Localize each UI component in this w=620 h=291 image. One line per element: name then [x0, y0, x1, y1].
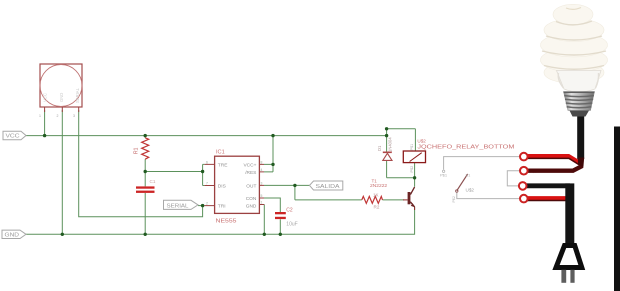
- junction VCC/R1: [144, 134, 147, 137]
- 555 pin numbers: [206, 160, 263, 205]
- wire VCC rail: [26, 135, 387, 137]
- svg-text:TRE: TRE: [218, 163, 228, 169]
- module pin labels inside: [43, 87, 81, 103]
- junction GND/C1: [144, 233, 147, 236]
- svg-text:T1: T1: [372, 179, 378, 184]
- svg-text:1K: 1K: [373, 192, 380, 197]
- svg-text:S1: S1: [466, 173, 472, 178]
- svg-text:R2: R2: [374, 205, 380, 210]
- junction TRE/DIS branch: [201, 170, 204, 173]
- svg-text:D1: D1: [377, 145, 382, 151]
- junction GND/C2: [279, 233, 282, 236]
- svg-text:CON: CON: [246, 196, 257, 202]
- plug cable vertical: [565, 183, 574, 246]
- junction VCC/pin1: [43, 134, 46, 137]
- relay contact wires (thin gray): [444, 157, 520, 170]
- svg-text:SALIDA: SALIDA: [316, 184, 340, 190]
- pad labels faint: [530, 155, 538, 202]
- cable/wire junction blob: [578, 158, 584, 168]
- svg-text:P$1: P$1: [410, 144, 414, 151]
- wire R1 bottom to node: [144, 159, 146, 186]
- svg-text:JQCHEFO_RELAY_BOTTOM: JQCHEFO_RELAY_BOTTOM: [417, 144, 514, 150]
- module U1 box: [40, 64, 82, 107]
- svg-text:1: 1: [261, 200, 263, 204]
- capacitor C1: [136, 186, 155, 188]
- svg-text:TRI: TRI: [218, 204, 226, 210]
- svg-text:U$2: U$2: [417, 139, 426, 144]
- svg-text:7: 7: [206, 181, 208, 185]
- wire serial to TRI: [198, 205, 205, 207]
- transistor T1: [408, 192, 411, 204]
- wire diode bottom / coil bottom to collector: [387, 161, 415, 187]
- wire module pin1 to VCC: [44, 110, 46, 136]
- svg-text:NE555: NE555: [216, 219, 237, 225]
- relay coil U$2: [403, 151, 425, 163]
- svg-text:C2: C2: [286, 208, 293, 214]
- CFL bulb spiral: [541, 4, 608, 83]
- svg-text:VCC+: VCC+: [243, 163, 256, 169]
- wire OUT to SALIDA and R2: [264, 185, 362, 200]
- svg-text:4: 4: [261, 168, 263, 172]
- junction VCC+ row: [271, 163, 274, 166]
- svg-text:DIS: DIS: [218, 184, 226, 190]
- svg-text:GND: GND: [59, 93, 64, 102]
- wire R2 to base: [383, 199, 405, 201]
- svg-text:1N4004: 1N4004: [388, 137, 393, 152]
- svg-text:VCC: VCC: [43, 93, 48, 102]
- module U1 circle: [40, 65, 82, 107]
- module pin stubs: [45, 107, 79, 112]
- wire GND rail: [26, 207, 415, 235]
- SALIDA flag: [310, 181, 343, 190]
- junction GND/555: [263, 233, 266, 236]
- junction SERIAL/TRI: [201, 204, 204, 207]
- wire C1 bottom to GND: [144, 193, 146, 234]
- thick wire C (pad3 to plug cable, black): [523, 183, 570, 188]
- diode D1: [383, 152, 392, 154]
- junction R1/C1 node: [144, 170, 147, 173]
- wire CON to C2: [264, 198, 280, 212]
- pad P$4: [520, 153, 528, 161]
- svg-text:GND: GND: [246, 204, 257, 210]
- wire module pin3 to serial net: [79, 110, 203, 217]
- svg-text:P$1: P$1: [440, 173, 448, 178]
- svg-text:OUT: OUT: [246, 184, 256, 190]
- 555 pin stubs: [205, 164, 265, 205]
- pad P$1: [519, 182, 527, 190]
- plug prong right: [570, 270, 574, 283]
- svg-text:5: 5: [261, 194, 263, 198]
- svg-text:2: 2: [206, 202, 208, 206]
- svg-text:P$2: P$2: [452, 196, 456, 202]
- svg-text:R1: R1: [134, 147, 140, 154]
- junction VCC/diode: [385, 134, 388, 137]
- svg-text:/RES: /RES: [245, 170, 256, 176]
- junction coil bottom/collector: [413, 176, 416, 179]
- wire C2 bottom to GND: [279, 219, 281, 234]
- wire R1 top: [144, 136, 146, 138]
- junction GND/pin2: [61, 233, 64, 236]
- junction VCC/555: [271, 134, 274, 137]
- svg-text:P$2: P$2: [410, 166, 414, 173]
- relay switch arm: [457, 174, 468, 191]
- plug prong left: [561, 270, 566, 283]
- 555 pin names: [218, 163, 257, 210]
- right edge black bar: [614, 127, 620, 291]
- svg-text:6: 6: [206, 160, 208, 164]
- svg-text:SERIAL: SERIAL: [167, 203, 189, 209]
- svg-text:C1: C1: [150, 179, 156, 184]
- resistor R1: [142, 138, 149, 159]
- wire module pin2 to GND: [61, 110, 63, 234]
- wire node to TRE/DIS: [145, 164, 204, 185]
- pad P$2: [520, 195, 528, 203]
- svg-text:GND: GND: [5, 233, 20, 239]
- pad P$3: [520, 167, 528, 175]
- bulb cable: [577, 110, 584, 159]
- VCC flag: [3, 131, 26, 139]
- svg-text:SERIAL: SERIAL: [75, 87, 80, 103]
- capacitor C2: [275, 212, 286, 214]
- svg-text:8: 8: [261, 160, 263, 164]
- svg-text:3: 3: [261, 181, 263, 185]
- op 555 IC1 box: [215, 156, 260, 213]
- GND flag: [2, 230, 26, 238]
- wire 555 GND down: [263, 205, 265, 235]
- thick wire D (pad4, red): [524, 196, 567, 201]
- svg-text:IC1: IC1: [216, 150, 225, 156]
- module pin numbers: [39, 114, 75, 118]
- resistor R2: [362, 196, 383, 203]
- svg-text:VCC: VCC: [6, 134, 20, 140]
- svg-text:3: 3: [73, 114, 75, 118]
- thick wire A (pad1 to bulb cable): [524, 156, 582, 164]
- svg-text:2: 2: [57, 114, 59, 118]
- wire VCC to diode top / coil top: [387, 129, 416, 152]
- junction OUT/SALIDA: [293, 184, 296, 187]
- svg-text:10uF: 10uF: [286, 222, 297, 228]
- svg-text:U$2: U$2: [466, 188, 475, 193]
- junction diode top corner: [385, 127, 388, 130]
- wire VCC+ and /RES tie: [264, 136, 273, 172]
- bulb housing: [557, 71, 602, 93]
- SERIAL flag: [164, 200, 199, 209]
- svg-text:2N2222: 2N2222: [370, 183, 387, 189]
- power plug body: [556, 246, 582, 268]
- thick wire B (pad2 to bulb cable, dark): [524, 166, 583, 171]
- svg-text:1: 1: [39, 114, 41, 118]
